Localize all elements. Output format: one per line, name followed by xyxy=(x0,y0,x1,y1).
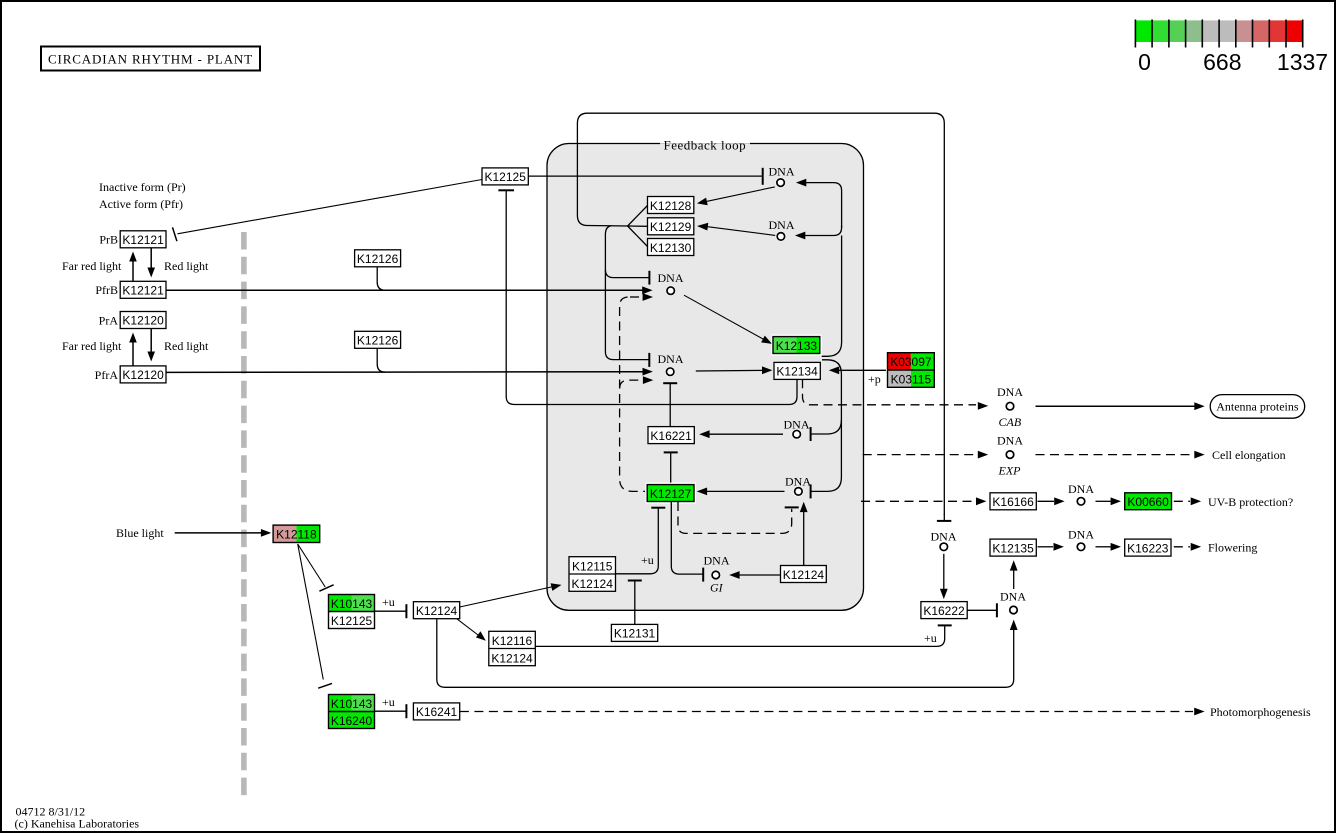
svg-text:K12133: K12133 xyxy=(776,339,818,353)
node K12129 xyxy=(648,218,694,235)
wire CAB to Antenna proteins with arrow xyxy=(1036,405,1197,407)
inhibition wire K12118 to K10143+K12125 xyxy=(298,544,326,587)
svg-text:K12120: K12120 xyxy=(122,368,164,382)
svg-text:UV-B protection?: UV-B protection? xyxy=(1208,495,1293,509)
svg-text:GI: GI xyxy=(710,581,724,595)
arrow up into DNA GI2 xyxy=(1010,620,1018,630)
inhibition tee bar under K12125 xyxy=(498,189,514,191)
inhibition wire K10143+K16240 to K16241 xyxy=(375,710,407,712)
svg-text:Cell elongation: Cell elongation xyxy=(1212,448,1286,462)
dashed wire UV-B row from gray box xyxy=(861,500,975,502)
svg-text:Photomorphogenesis: Photomorphogenesis xyxy=(1210,705,1311,719)
svg-text:K12129: K12129 xyxy=(650,220,692,234)
node K12125 xyxy=(482,168,528,185)
inhibition wire K16221 up to DNA d xyxy=(669,383,671,427)
svg-text:K12130: K12130 xyxy=(650,241,692,255)
svg-text:DNA: DNA xyxy=(658,271,684,285)
svg-text:+u: +u xyxy=(641,553,654,567)
dashed tee bar below DNA f xyxy=(785,506,799,508)
svg-text:K12125: K12125 xyxy=(485,170,527,184)
svg-text:K12135: K12135 xyxy=(992,541,1034,555)
wire K12116+K12124 to K16222 +u tee xyxy=(535,625,944,646)
inhibition tee onto DNA above K16222 xyxy=(937,520,951,522)
wire down arrow red light (PrB to PfrB) xyxy=(150,248,152,270)
node PfrA K12120 xyxy=(95,366,166,383)
svg-text:DNA: DNA xyxy=(931,530,957,544)
dashed wire vertical (indirect effects) xyxy=(620,297,645,491)
svg-text:K16240: K16240 xyxy=(331,714,373,728)
node K16223 xyxy=(1125,539,1171,556)
node K12116 + K12124 stacked xyxy=(489,631,536,665)
node PrB K12121 xyxy=(99,231,166,248)
node K16241 xyxy=(413,703,459,720)
node DNA k (above K16222) xyxy=(931,530,957,551)
wire up arrow far red light (PfrB to PrB) xyxy=(132,259,134,281)
tee bar under DNA d xyxy=(663,382,677,384)
tee bar left of K16241 xyxy=(405,704,407,718)
svg-text:DNA: DNA xyxy=(997,434,1023,448)
wire DNA f to K12127 with arrow xyxy=(706,490,785,492)
svg-text:0: 0 xyxy=(1138,49,1151,75)
svg-text:K03115: K03115 xyxy=(891,372,932,386)
wire K03097 to K12134 with arrow xyxy=(839,369,888,371)
node DNA a (top right) xyxy=(769,165,795,188)
node K12134 xyxy=(774,362,820,379)
wire fan to K12129 xyxy=(628,225,648,227)
inhibition wire from K12134 foot line up to K12125 xyxy=(506,190,797,404)
svg-text:K12131: K12131 xyxy=(614,627,656,641)
node K10143 + K16240 stacked (colored) xyxy=(327,693,377,730)
svg-text:Inactive form (Pr): Inactive form (Pr) xyxy=(99,180,186,194)
dashed inhibition wire K12127 to DNA f promoter xyxy=(678,502,792,533)
wire DNA c to K12133 with arrow xyxy=(684,295,764,339)
node DNA m xyxy=(1068,528,1094,551)
wire DNA e to K16221 with arrow xyxy=(709,433,784,435)
svg-text:Red light: Red light xyxy=(164,339,209,353)
node K12126 lower xyxy=(355,331,401,348)
feedback wire with arrow into DNA b xyxy=(804,226,842,236)
svg-text:K12124: K12124 xyxy=(572,577,614,591)
svg-text:Red light: Red light xyxy=(164,259,209,273)
dashed wire to UV-B protection with arrow xyxy=(1174,500,1190,502)
node K16222 xyxy=(921,602,967,619)
title box CIRCADIAN RHYTHM - PLANT xyxy=(41,47,260,71)
svg-text:Flowering: Flowering xyxy=(1208,540,1257,554)
long diagonal wire K12125 to PrB tee xyxy=(178,180,483,234)
node DNA GI2 xyxy=(1000,590,1026,614)
svg-text:DNA: DNA xyxy=(1000,590,1026,604)
wire K12124 up arrow into DNA f xyxy=(803,509,805,566)
wire DNA d to K12134 with arrow xyxy=(696,369,763,372)
svg-text:Antenna proteins: Antenna proteins xyxy=(1216,400,1299,414)
svg-text:1337: 1337 xyxy=(1277,49,1328,75)
node K10143 + K12125 stacked (colored) xyxy=(327,593,377,630)
dashed arrow head into DNA c xyxy=(643,293,653,301)
wire K12125 to DNA a tee xyxy=(528,175,762,177)
svg-text:K12120: K12120 xyxy=(122,314,164,328)
svg-text:PfrB: PfrB xyxy=(95,283,118,297)
svg-text:DNA: DNA xyxy=(1068,482,1094,496)
tee bar left of K12124 xyxy=(405,604,407,618)
node K12128 xyxy=(648,197,694,214)
wire up arrow far red light (PfrA to PrA) xyxy=(132,340,134,366)
wire K12124 to GI DNA with arrow xyxy=(739,574,781,576)
inhibition tee at DNA c xyxy=(648,271,650,285)
svg-text:K12124: K12124 xyxy=(416,604,458,618)
svg-text:CAB: CAB xyxy=(999,415,1022,429)
wire down arrow red light (PrA to PfrA) xyxy=(150,329,152,355)
svg-text:K12118: K12118 xyxy=(276,527,317,541)
svg-text:668: 668 xyxy=(1203,49,1241,75)
node DNA j xyxy=(1068,482,1094,505)
svg-text:K12128: K12128 xyxy=(650,199,692,213)
wire fan to K12128 xyxy=(628,206,648,227)
svg-text:Blue light: Blue light xyxy=(116,526,164,540)
feedback vertical wire down to K12133 gap xyxy=(822,236,842,357)
node Antenna proteins pill xyxy=(1210,395,1305,419)
svg-text:DNA: DNA xyxy=(658,352,684,366)
svg-text:K03097: K03097 xyxy=(890,355,932,369)
svg-text:K12121: K12121 xyxy=(122,233,164,247)
node K16221 xyxy=(648,427,694,444)
wire DNA m to K16223 with arrow xyxy=(1096,546,1112,548)
wire from K12133 gap down right side to DNA e and f tees xyxy=(811,360,842,434)
inhibition wire K12131 up to K12115 wire xyxy=(634,581,636,625)
inhibition tee bar at DNA f xyxy=(810,484,812,498)
node K12124 (in loop) xyxy=(781,566,827,583)
wire fan to K12130 xyxy=(628,226,648,247)
node PrA K12120 xyxy=(99,312,166,329)
dashed branch arrow into DNA d xyxy=(620,380,644,388)
svg-text:EXP: EXP xyxy=(998,464,1022,478)
inhibition wire K10143+K12125 to K12124 xyxy=(375,610,407,612)
svg-text:K10143: K10143 xyxy=(331,597,373,611)
node K00660 (green) xyxy=(1123,491,1174,512)
legend color scale bar xyxy=(1135,20,1302,42)
svg-text:Feedback loop: Feedback loop xyxy=(664,138,747,153)
dashed wire to Cell elongation with arrow xyxy=(1036,454,1194,456)
svg-text:K16221: K16221 xyxy=(650,429,692,443)
svg-text:K12124: K12124 xyxy=(491,651,533,665)
tee bar on wire xyxy=(628,580,642,582)
wire K12124 down and around to DNA GI2 xyxy=(437,619,1014,687)
legend ticks xyxy=(1135,20,1302,48)
connector wire K12126 lower onto PfrA wire xyxy=(377,348,385,372)
svg-text:DNA: DNA xyxy=(997,385,1023,399)
tee bar left of DNA GI2 xyxy=(996,603,998,617)
svg-text:K16241: K16241 xyxy=(416,705,458,719)
wire K16166 to DNA j with arrow xyxy=(1038,500,1055,502)
svg-text:DNA: DNA xyxy=(769,165,795,179)
dashed wire K16241 to Photomorphogenesis with arrow xyxy=(460,711,1193,713)
svg-text:K12126: K12126 xyxy=(357,334,399,348)
wire DNA j to K00660 with arrow xyxy=(1096,500,1112,502)
svg-text:PfrA: PfrA xyxy=(95,368,119,382)
node DNA d xyxy=(658,352,684,377)
inhibition tee bar at DNA e xyxy=(810,427,812,441)
feedback wire with arrow into DNA a xyxy=(805,183,842,228)
svg-text:PrB: PrB xyxy=(99,233,118,247)
wire blue light arrow to K12118 xyxy=(175,532,262,534)
svg-text:K12134: K12134 xyxy=(776,365,818,379)
angled tee bar at K10143+K16240 xyxy=(318,683,332,688)
gray dashed divider line (cell boundary) xyxy=(241,232,247,800)
inhibition wire K12118 to K10143+K16240 xyxy=(298,544,324,680)
wire K16222 to DNA GI2 tee xyxy=(967,609,997,611)
wire K12124 to K12115+K12124 with arrow xyxy=(460,587,553,607)
legend labels 0 668 1337 xyxy=(1138,49,1328,75)
svg-text:K16223: K16223 xyxy=(1127,541,1169,555)
node DNA GI xyxy=(704,554,730,595)
svg-text:K12116: K12116 xyxy=(492,634,533,648)
connector wire K12126 upper onto PfrB wire xyxy=(377,267,385,291)
inhibition wire K12115+K12124 to K12127 (+u) xyxy=(616,508,659,574)
inhibition tee bar at DNA a xyxy=(762,168,764,185)
svg-text:DNA: DNA xyxy=(1068,528,1094,542)
tee bar at GI DNA xyxy=(702,568,704,582)
svg-text:K12126: K12126 xyxy=(357,252,399,266)
tee bar under K16222 xyxy=(938,624,952,626)
svg-text:K12127: K12127 xyxy=(650,487,692,501)
outer feedback return wire (from K16222 DNA tee up and around to K12128/29/30 fan) xyxy=(577,113,944,515)
svg-text:K16222: K16222 xyxy=(923,604,965,618)
wire K12135 to DNA m with arrow xyxy=(1038,546,1054,548)
node K12124 (center) xyxy=(413,602,459,619)
svg-text:+u: +u xyxy=(382,695,395,709)
svg-text:+u: +u xyxy=(382,595,395,609)
svg-text:DNA: DNA xyxy=(704,554,730,568)
svg-text:+p: +p xyxy=(868,372,881,386)
svg-text:Far red light: Far red light xyxy=(62,259,122,273)
tee bar under K16221 xyxy=(664,451,678,453)
node K12130 xyxy=(648,239,694,256)
node K12133 (two-tone green) xyxy=(771,335,821,356)
node K03097 + K03115 stacked (colored) xyxy=(886,351,936,389)
svg-text:Active form (Pfr): Active form (Pfr) xyxy=(99,197,183,211)
svg-text:K12115: K12115 xyxy=(572,560,613,574)
node K12131 xyxy=(611,624,657,641)
wire DNA a to K12128 with arrow xyxy=(707,187,775,202)
inhibition wire K12127 to GI DNA xyxy=(671,502,703,574)
svg-text:K12121: K12121 xyxy=(122,284,164,298)
node K12135 xyxy=(990,539,1036,556)
node K12118 (two-tone colored) xyxy=(272,524,322,545)
node K12115 + K12124 stacked xyxy=(569,557,616,592)
svg-text:CIRCADIAN RHYTHM - PLANT: CIRCADIAN RHYTHM - PLANT xyxy=(48,52,253,67)
node K12126 upper xyxy=(355,250,401,267)
feedback loop gray region xyxy=(547,137,864,610)
svg-text:K16166: K16166 xyxy=(992,495,1034,509)
wire PfrA to DNA d with arrow xyxy=(166,371,643,374)
dashed foot wire from K12134 to CAB promoter xyxy=(803,379,977,405)
svg-text:K10143: K10143 xyxy=(331,697,373,711)
node K12127 (green) xyxy=(646,483,696,504)
node DNA c xyxy=(658,271,684,296)
wire K12124 to K12116+K12124 with arrow xyxy=(457,619,479,636)
branch wire down to DNA promoter tees xyxy=(605,226,649,360)
inhibition tee at DNA d xyxy=(648,353,650,367)
svg-text:DNA: DNA xyxy=(769,218,795,232)
angled tee bar at K10143+K12125 xyxy=(319,585,333,591)
svg-text:+u: +u xyxy=(924,631,937,645)
svg-text:(c) Kanehisa Laboratories: (c) Kanehisa Laboratories xyxy=(15,816,140,830)
svg-text:K12125: K12125 xyxy=(331,614,373,628)
dashed wire to Flowering with arrow xyxy=(1174,546,1190,548)
svg-text:K12124: K12124 xyxy=(783,568,825,582)
svg-text:K00660: K00660 xyxy=(1127,495,1169,509)
node DNA EXP xyxy=(997,434,1023,478)
dashed wire EXP promoter xyxy=(863,454,976,456)
angled inhibition tee at PrB xyxy=(173,227,177,241)
node DNA f xyxy=(785,475,811,497)
node DNA CAB xyxy=(997,385,1023,429)
tee bar under K12127 xyxy=(651,507,665,509)
svg-text:PrA: PrA xyxy=(99,313,119,327)
wire DNA b to K12129 with arrow xyxy=(707,227,776,236)
wire DNA k down arrow to K16222 xyxy=(943,554,945,590)
wire PfrB to DNA c with arrow xyxy=(166,289,643,291)
node DNA e xyxy=(784,418,810,440)
node DNA b xyxy=(769,218,795,241)
node PfrB K12121 xyxy=(95,281,166,298)
svg-text:Far red light: Far red light xyxy=(62,339,122,353)
wire DNA GI2 up to K12135 with arrow xyxy=(1013,569,1015,589)
inhibition wire K12127 up to K16221 xyxy=(670,452,672,484)
node K16166 xyxy=(990,493,1036,510)
